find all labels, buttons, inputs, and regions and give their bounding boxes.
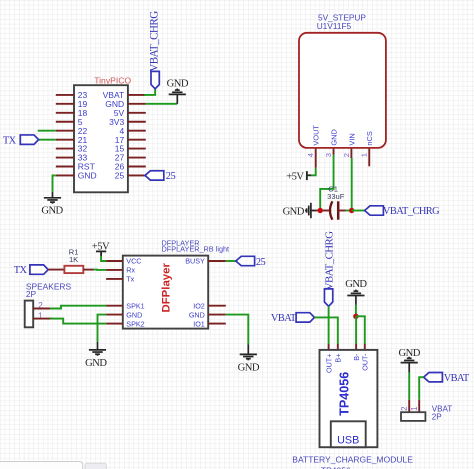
wire pin22 stub [38,130,56,132]
svg-text:+5V: +5V [92,241,110,252]
wire +5V to VCC [101,256,106,261]
wire C1 to VIN junction [346,210,352,212]
net flag TX (TinyPICO) [3,135,56,146]
DFPlayer left pins [106,261,123,324]
wire VBAT_CHRG down to OUT+ [328,306,330,344]
svg-text:GND: GND [329,129,338,145]
svg-text:25: 25 [256,257,266,268]
ground (rotated, left of C1) [283,203,316,218]
svg-text:U1V11F5: U1V11F5 [317,21,352,31]
ground (below DFPlayer left) [85,342,107,369]
stepup pin 4 VOUT stub [315,149,317,168]
svg-text:2: 2 [342,153,351,157]
svg-text:GND: GND [189,310,205,319]
capacitor C1 33uF [320,184,345,219]
wire ground to pin 2 [408,373,410,400]
svg-text:GND: GND [41,206,63,217]
svg-text:TX: TX [3,135,17,146]
svg-text:BUSY: BUSY [185,257,205,266]
stepup pin 3 GND stub [333,149,335,155]
svg-text:33uF: 33uF [327,192,345,201]
svg-text:GND: GND [167,78,189,89]
UI button bottom left [85,463,106,469]
junction C1 right / VIN [349,208,354,213]
svg-text:IO2: IO2 [193,301,205,310]
svg-text:BATTERY_CHARGE_MODULE: BATTERY_CHARGE_MODULE [292,455,413,465]
stepup pin 2 VIN stub [350,149,352,158]
junction B- / OUT- [353,314,358,319]
wire VBAT pin to VBAT_CHRG flag [144,89,155,95]
IC TinyPICO [74,75,131,192]
svg-text:4: 4 [306,153,315,157]
svg-text:1K: 1K [69,255,78,264]
svg-text:GND: GND [345,279,367,290]
net flag VBAT (left of TP4056) [271,313,315,325]
svg-text:2: 2 [400,407,409,411]
wire VBAT flag to pin 1 [419,377,423,400]
wire junction to OUT- [356,316,365,344]
wire gnd to C1 [316,210,321,212]
wire ground to junction [355,305,357,316]
svg-text:SPK2: SPK2 [126,319,144,328]
svg-text:USB: USB [337,435,359,447]
power port +5V (DFPlayer) [92,241,110,256]
net flag VBAT_CHRG (vertical, above TP4056) [324,231,336,306]
TP4056 B+ pin stub [337,344,339,350]
DFPlayer right pins [208,261,226,324]
IC DFPlayer [123,238,229,328]
svg-text:OUT-: OUT- [361,353,370,371]
stepup pin labels [312,125,375,146]
svg-text:VBAT_CHRG: VBAT_CHRG [383,206,440,217]
TP4056 B- pin stub [355,344,357,350]
wire BUSY to flag 25 [226,260,236,262]
wire VIN down to junction [351,158,353,211]
stepup pin 1 nCS stub [368,149,370,167]
TinyPICO right pins [128,95,146,176]
svg-text:TinyPICO: TinyPICO [94,75,131,85]
svg-text:1: 1 [360,153,369,157]
svg-text:GND: GND [283,206,305,217]
net flag VBAT_CHRG (vertical, top) [148,11,160,89]
svg-text:DFPLAYER_RB light: DFPLAYER_RB light [162,245,230,254]
net flag VBAT (bottom right) [424,373,470,385]
module U1V11F5 5V_STEPUP [299,13,386,148]
wire stepup GND to C1 junction [320,155,333,211]
svg-text:nCS: nCS [365,131,374,145]
wire junction to VBAT_CHRG flag [352,210,365,212]
power port +5V (stepup) [286,171,311,182]
wire speakers pin2 to SPK1 [50,306,106,309]
svg-text:VIN: VIN [347,133,356,145]
wire VBAT to B+ [314,317,337,344]
net flag TX (DFPlayer) [14,265,48,276]
svg-text:SPK1: SPK1 [126,301,144,310]
svg-text:VBAT_CHRG: VBAT_CHRG [324,231,336,290]
wire speakers pin1 to SPK2 [50,319,106,324]
UI panel bottom left [0,462,83,469]
ground (above VBAT 2P, flipped) [399,348,421,372]
svg-text:VBAT: VBAT [444,373,470,384]
svg-text:25: 25 [115,171,125,181]
ground (below TinyPICO) [41,192,63,217]
svg-text:VCC: VCC [126,257,141,266]
svg-text:TX: TX [14,265,28,276]
TP4056 OUT- pin stub [364,344,366,350]
speakers pin 2 [33,308,52,310]
svg-text:B-: B- [352,353,361,361]
svg-text:GND: GND [399,348,421,359]
svg-text:DFPlayer: DFPlayer [160,263,172,313]
TP4056 OUT+ pin stub [328,344,330,350]
svg-text:Tx: Tx [126,275,134,284]
net flag 25 (TinyPICO pin 25) [145,171,175,182]
svg-text:GND: GND [126,310,142,319]
svg-text:GND: GND [238,362,260,373]
svg-text:VBAT_CHRG: VBAT_CHRG [148,11,160,72]
net flag VBAT_CHRG (mid right) [365,206,441,217]
wire GND pin row2 [146,103,178,105]
svg-text:3: 3 [324,153,333,157]
wire TinyPICO GND pin to ground [53,175,56,191]
svg-text:1: 1 [410,407,419,411]
ground (below DFPlayer right) [238,345,260,374]
wire R1 to Rx [94,269,107,271]
svg-text:25: 25 [166,171,176,182]
svg-text:2P: 2P [432,413,442,422]
wire DFPlayer GND right to ground [226,315,249,345]
resistor R1 1K [48,247,93,273]
connector VBAT 2P [400,400,452,422]
svg-text:TP4056: TP4056 [337,372,351,416]
svg-text:TP4056: TP4056 [321,465,351,469]
svg-text:B+: B+ [334,354,343,363]
svg-text:VBAT: VBAT [271,313,297,324]
svg-text:+5V: +5V [286,171,304,182]
TinyPICO left pins [56,95,74,176]
wire junction to B- [355,316,357,344]
wire DFPlayer GND left to ground [98,315,107,342]
speakers pin 1 [33,318,52,320]
connector SPEAKERS 2P [25,281,72,327]
svg-text:2P: 2P [26,289,37,299]
svg-text:GND: GND [85,358,107,369]
junction C1 left [318,208,323,213]
wire VOUT to +5V [311,168,315,176]
net flag 25 (DFPlayer BUSY) [236,256,266,268]
svg-text:IO1: IO1 [193,319,205,328]
stepup pin numbers 4 3 2 1 [306,153,369,157]
svg-text:OUT+: OUT+ [324,354,333,373]
svg-text:GND: GND [78,171,97,181]
svg-text:VOUT: VOUT [312,125,321,146]
svg-text:Rx: Rx [126,266,135,275]
ground (top, flipped) [167,78,189,104]
ground (above TP4056, flipped) [345,279,367,305]
module TP4056 BATTERY_CHARGE_MODULE [292,350,413,469]
